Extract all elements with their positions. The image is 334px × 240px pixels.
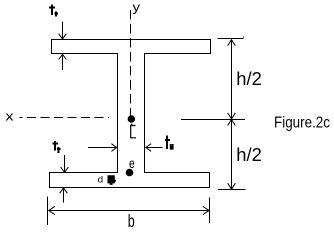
t_f bottom up arrow	[60, 188, 68, 203]
label h/2 upper	[236, 68, 261, 89]
t_f top up arrow	[59, 54, 67, 70]
label Figure.2c	[274, 115, 330, 132]
x-axis dashed centerline	[20, 117, 110, 119]
label y	[133, 0, 141, 14]
svg-text:x: x	[6, 109, 15, 124]
label d	[98, 175, 104, 185]
dot d marker	[108, 175, 116, 185]
b dimension line	[49, 206, 210, 214]
t_f top label	[49, 5, 58, 17]
I-beam section outline	[50, 40, 211, 188]
svg-text:h/2: h/2	[236, 68, 261, 89]
label h/2 lower	[236, 144, 261, 165]
extension line top	[218, 37, 245, 39]
label x	[6, 109, 15, 124]
label b	[128, 211, 135, 231]
svg-text:h/2: h/2	[236, 144, 261, 165]
svg-text:e: e	[129, 155, 135, 171]
t_w label	[165, 135, 170, 149]
label e	[129, 155, 135, 171]
t_f bottom label	[52, 141, 60, 153]
dot e marker	[126, 169, 134, 177]
h/2 dimension line lower	[228, 119, 236, 190]
extension line bottom	[218, 189, 246, 191]
label C	[131, 124, 136, 138]
t_w right arrow	[146, 144, 163, 152]
extension line middle	[181, 119, 245, 121]
t_f top down arrow	[59, 22, 67, 39]
t_f bottom down arrow	[61, 155, 69, 173]
svg-text:Figure.2c: Figure.2c	[274, 115, 330, 132]
b dimension right tick	[209, 198, 211, 223]
h/2 dimension line upper	[228, 40, 236, 120]
t_w left arrow	[88, 144, 117, 152]
centroid dot	[128, 115, 135, 122]
svg-text:y: y	[133, 0, 141, 14]
b dimension left tick	[47, 197, 49, 226]
svg-text:b: b	[128, 211, 135, 231]
y-axis dashed centerline	[130, 10, 132, 116]
svg-text:d: d	[98, 175, 104, 185]
